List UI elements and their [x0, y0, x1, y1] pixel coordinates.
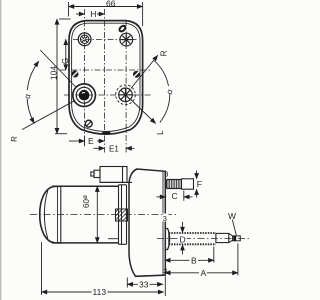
side screw right: [133, 71, 140, 78]
svg-text:G: G: [61, 58, 70, 64]
svg-text:W: W: [228, 211, 236, 221]
output shaft centerline: [157, 238, 249, 240]
left sweep arc with alpha: [27, 61, 39, 94]
gearbox body: [129, 169, 165, 276]
dim 66 top: [69, 2, 143, 26]
dim A: [165, 244, 238, 276]
dome inner seam arc: [44, 191, 47, 239]
svg-text:113: 113: [93, 287, 107, 297]
leader W: [232, 220, 236, 236]
sweep angle construct right: upper radial line to R: [131, 55, 158, 88]
centerline horizontal top hole row: [73, 39, 137, 41]
svg-text:D: D: [180, 235, 186, 245]
can end flange: [108, 185, 127, 245]
motor can bottom edge: [52, 242, 119, 244]
svg-text:R: R: [9, 135, 18, 142]
bolt hole top-left: [78, 33, 91, 46]
output shaft threaded section: [169, 233, 216, 245]
label alpha left: [23, 90, 32, 99]
bolt hole top-right (splined): [120, 33, 133, 46]
label B: [190, 256, 199, 265]
label 33: [138, 280, 150, 289]
dim G: [65, 39, 67, 70]
dark slot bottom center: [102, 132, 111, 135]
small drive shaft top (smooth section): [182, 179, 194, 189]
centerline horizontal main shaft row: [64, 94, 152, 96]
dim F: [196, 171, 198, 198]
svg-text:C: C: [172, 191, 178, 201]
dim 113: [42, 242, 164, 295]
svg-text:E1: E1: [109, 145, 119, 154]
label A: [199, 269, 207, 278]
centerline vertical right column: [125, 20, 127, 153]
motor axis centerline: [30, 214, 176, 216]
output shaft collar: [165, 229, 170, 250]
output shaft cone: [229, 233, 233, 242]
splined wheel circle (top view right): [116, 85, 136, 105]
bearing hatch block: [116, 209, 128, 221]
terminal block: [91, 167, 132, 183]
centerline horizontal side hole row: [60, 69, 150, 71]
scan edge artifact left: [0, 0, 2, 300]
screw with slot bottom-left: [85, 120, 92, 127]
housing outer contour: [69, 21, 143, 135]
gearbox right inner line: [162, 171, 164, 275]
dome joint lines: [57, 186, 59, 243]
svg-text:B: B: [191, 256, 197, 266]
left lower radial line to R: [22, 101, 74, 130]
label D: [179, 235, 187, 244]
centerline vertical middle axis: [103, 9, 105, 153]
svg-text:H: H: [90, 9, 96, 19]
dim D: [182, 222, 184, 255]
label E1: [109, 144, 121, 152]
motor can top edge: [52, 185, 119, 187]
output shaft smooth section: [216, 233, 229, 242]
svg-text:E: E: [88, 136, 94, 146]
side screw left: [72, 71, 79, 78]
right sweep arc with alpha: [154, 61, 168, 86]
dim H: [76, 13, 104, 15]
output shaft tip nub: [233, 236, 241, 241]
housing inner contour: [72, 23, 140, 131]
label E: [87, 137, 96, 145]
motor dome cap: [40, 186, 61, 243]
svg-text:33: 33: [139, 280, 149, 290]
svg-text:3: 3: [163, 267, 167, 276]
small drive shaft top (knurled section): [167, 180, 182, 189]
svg-text:3: 3: [164, 170, 168, 179]
svg-text:66: 66: [106, 0, 116, 9]
main output boss (top view): [73, 84, 96, 107]
dim C: [157, 191, 193, 201]
small tilted slot top-right: [118, 25, 126, 33]
svg-text:104: 104: [48, 66, 58, 80]
svg-text:F: F: [197, 179, 202, 189]
label 113: [92, 288, 108, 297]
right lower radial line to L: [131, 100, 156, 124]
sweep angle construct left: upper radial line: [40, 50, 76, 87]
dim 104 left: [55, 19, 71, 134]
dim E1: [94, 147, 135, 149]
svg-text:L: L: [156, 130, 165, 135]
dim 33: [127, 277, 165, 297]
dim E: [69, 136, 104, 147]
label 3 middle: [163, 214, 169, 222]
centerline vertical left column: [84, 9, 86, 147]
svg-text:3: 3: [163, 214, 167, 223]
dim B: [165, 247, 214, 263]
svg-text:R: R: [160, 50, 169, 56]
svg-text:A: A: [201, 268, 207, 278]
dim 60 dia: [96, 186, 98, 243]
